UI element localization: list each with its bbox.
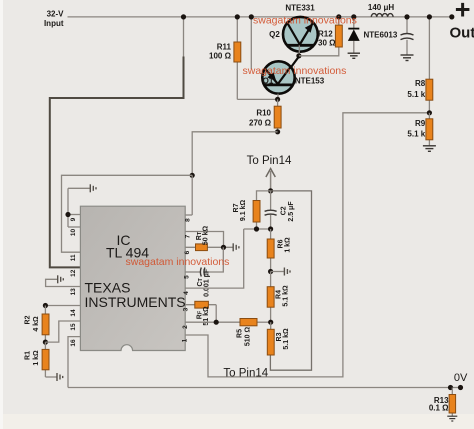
node rail junction at R12 [336, 14, 341, 19]
wire 32V branch dark segment down-left to IC pin 12 [50, 57, 184, 268]
ground at R9 [423, 146, 436, 152]
resistor R7 [233, 200, 260, 222]
label Q2 [269, 30, 280, 39]
capacitor output filter [401, 34, 414, 40]
wire pin 13 to ground [46, 279, 81, 286]
ground at diode [348, 53, 360, 58]
pin number 6 [184, 250, 191, 254]
svg-text:1 kΩ: 1 kΩ [33, 350, 40, 366]
svg-text:8: 8 [185, 218, 192, 222]
svg-text:R7: R7 [233, 203, 240, 212]
wire pins 9,10 tie with ground branch [68, 188, 90, 227]
node pin2/RF junction [214, 320, 219, 325]
wire pin 3 through RF to pin 2 node [185, 305, 216, 323]
node rail junction at output capacitor [404, 14, 409, 19]
svg-text:R9: R9 [415, 119, 426, 128]
svg-text:Q2: Q2 [269, 30, 280, 39]
resistor R4 leads [270, 272, 272, 323]
transistor Q2 NTE331 [283, 17, 318, 52]
svg-text:R3: R3 [276, 332, 283, 341]
node RT/CT ground junction [221, 245, 226, 250]
svg-text:10: 10 [70, 229, 77, 237]
svg-text:0V: 0V [454, 372, 468, 384]
watermark swagatam innovations (middle) [243, 65, 347, 77]
svg-text:R4: R4 [276, 290, 283, 299]
svg-text:50 kΩ: 50 kΩ [202, 226, 209, 246]
svg-text:R11: R11 [217, 43, 232, 52]
diode NTE6013 [348, 29, 398, 41]
pin number 7 [185, 234, 192, 238]
wire pin 1 feedback to R8/R9 junction [185, 113, 429, 377]
svg-text:16: 16 [70, 339, 77, 347]
svg-text:0.001 μF: 0.001 μF [204, 268, 211, 297]
svg-text:4 kΩ: 4 kΩ [33, 316, 40, 332]
svg-text:1 kΩ: 1 kΩ [285, 237, 292, 253]
node pin9 junction [65, 212, 70, 217]
wire pin 16 to 0V rail [68, 337, 80, 388]
node rail junction at diode [351, 14, 356, 19]
node R2/R1 junction [43, 340, 48, 345]
svg-text:140 μH: 140 μH [368, 3, 394, 12]
wire Q1 emitter to rail [250, 17, 252, 69]
pin number 16 [70, 339, 77, 347]
svg-text:5.1 k: 5.1 k [407, 90, 425, 99]
resistor R2 [25, 314, 50, 335]
node input label 32-V Input [44, 10, 64, 29]
resistor R11 leads [236, 17, 238, 100]
svg-text:270 Ω: 270 Ω [249, 119, 272, 128]
svg-text:Input: Input [44, 19, 64, 28]
svg-text:15: 15 [70, 323, 77, 331]
svg-text:32-V: 32-V [47, 10, 65, 19]
diode NTE6013 leads [353, 17, 355, 53]
svg-text:12: 12 [70, 269, 77, 277]
resistor R13 leads [451, 388, 453, 417]
resistor R1 [25, 349, 50, 369]
svg-text:5.1 k: 5.1 k [407, 130, 425, 139]
pin number 4 [183, 291, 190, 295]
svg-text:R1: R1 [25, 351, 32, 360]
svg-text:5.1 kΩ: 5.1 kΩ [283, 285, 290, 307]
resistor RF [195, 301, 210, 325]
resistor R12 [318, 25, 342, 47]
node rail junction at R8 [427, 14, 432, 19]
pin number 12 [70, 269, 77, 277]
wire R7/C2 bottom tie [244, 228, 271, 230]
resistor R2 leads [44, 306, 46, 343]
capacitor output filter leads [406, 17, 408, 55]
node output terminal [449, 14, 454, 19]
svg-text:swagatam innovations: swagatam innovations [243, 65, 347, 77]
node 0V terminal [458, 385, 463, 390]
transistor Q1 NTE153 [262, 57, 299, 94]
watermark swagatam innovations (top) [253, 15, 357, 27]
label To Pin14 (bottom) [223, 368, 268, 380]
pin number 3 [183, 307, 190, 311]
svg-text:R12: R12 [318, 30, 333, 39]
ground (sideways) at pins 5,6,7 [233, 243, 239, 251]
resistor R5 [237, 319, 258, 347]
IC U1 TL494 body [80, 206, 185, 350]
node R10 bottom [275, 129, 280, 134]
node R4/R3/R5 junction [268, 320, 273, 325]
svg-text:To Pin14: To Pin14 [223, 368, 268, 380]
wire R11 to Q1 base [237, 98, 277, 100]
resistor R8 [407, 79, 432, 100]
node rail junction at R11 [235, 14, 240, 19]
pin number 15 [70, 323, 77, 331]
pin number 10 [70, 229, 77, 237]
svg-text:+: + [455, 0, 471, 25]
svg-text:R8: R8 [415, 79, 426, 88]
svg-text:Outp: Outp [450, 25, 474, 42]
label To Pin14 (top) [247, 155, 292, 167]
node rail junction at Q1 emitter [249, 14, 254, 19]
wire 0V bottom rail [68, 387, 461, 389]
ground (sideways) at R6 bottom [284, 268, 290, 276]
wire junction left to pin 11 riser [62, 175, 193, 252]
wire pin 4 to R6 top node [185, 229, 244, 288]
pin number 1 [182, 338, 189, 342]
svg-text:2: 2 [182, 325, 189, 329]
ground (sideways) at R1 [57, 373, 63, 381]
svg-text:NTE153: NTE153 [295, 76, 325, 85]
pin number 5 [184, 275, 191, 279]
wire pin 7 to ground node [185, 232, 223, 248]
resistor R11 [209, 42, 241, 62]
wire divider top loop to R3 bottom [270, 191, 311, 370]
ground (sideways) at pin 13 [58, 275, 64, 283]
wire pin 14 to R2 [45, 305, 80, 307]
svg-text:Q1: Q1 [263, 77, 274, 86]
node R6 bottom ground tap [268, 269, 273, 274]
svg-text:4: 4 [183, 291, 190, 295]
label + Out [450, 0, 474, 42]
svg-text:0.1 Ω: 0.1 Ω [429, 403, 449, 412]
wire 32V top rail [68, 16, 452, 18]
svg-text:C2: C2 [281, 206, 288, 215]
svg-text:7: 7 [185, 234, 192, 238]
svg-text:R5: R5 [237, 329, 244, 338]
label 0V [454, 372, 468, 384]
wire junction down to pin 8 [185, 175, 192, 215]
wire R6 bottom to ground [271, 271, 284, 273]
wire Q2 base stem [298, 45, 300, 56]
node C2 bottom / R6 top [268, 226, 273, 231]
wire pin 5 through CT [185, 247, 223, 272]
resistor R13 [429, 395, 456, 414]
resistor R6 [267, 237, 291, 258]
svg-text:13: 13 [70, 288, 77, 296]
wire pin 6 through RT to ground [185, 246, 233, 248]
pin number 11 [70, 254, 77, 261]
wire Q1 base stem [277, 94, 279, 100]
wire R10 bottom to pins 8,11 net [192, 132, 277, 176]
node divider top [268, 188, 273, 193]
node pin8/pin11 junction [190, 173, 195, 178]
capacitor C2 [265, 201, 295, 222]
svg-text:5.1 kΩ: 5.1 kΩ [283, 328, 290, 350]
resistor R10 leads [277, 99, 279, 132]
label Q1 [263, 77, 274, 86]
node Q1 base junction [275, 97, 280, 102]
svg-text:11: 11 [70, 254, 77, 261]
ground (sideways) near pins 9,10 [90, 184, 96, 192]
resistor R3 leads [270, 322, 272, 330]
svg-text:3: 3 [183, 307, 190, 311]
capacitor CT [197, 268, 211, 297]
watermark swagatam innovations (IC) [126, 256, 230, 268]
svg-text:100 Ω: 100 Ω [209, 52, 232, 61]
resistor R8 leads [428, 17, 430, 113]
wire pin 2 to R5 [185, 321, 271, 323]
ground at R13 [447, 416, 457, 421]
pin number 8 [185, 218, 192, 222]
resistor R1 leads [45, 342, 56, 377]
svg-text:R6: R6 [278, 239, 285, 248]
label NTE153 [295, 76, 325, 85]
svg-text:2.5 μF: 2.5 μF [288, 201, 295, 222]
resistor R4 [267, 285, 289, 307]
node rail junction at input branch [181, 14, 186, 19]
resistor R3 [267, 328, 290, 355]
inductor 140uH [371, 14, 393, 17]
node R8/R9 junction [427, 110, 432, 115]
svg-text:swagatam innovations: swagatam innovations [126, 256, 230, 268]
svg-text:NTE331: NTE331 [285, 4, 315, 13]
capacitor C2 leads [270, 191, 272, 229]
wire 32V branch to pin 12 (light upper segment) [183, 17, 185, 57]
svg-text:6: 6 [184, 250, 191, 254]
svg-text:14: 14 [70, 309, 77, 317]
label NTE331 [285, 4, 315, 13]
resistor R10 [249, 106, 281, 128]
svg-text:1: 1 [182, 338, 189, 342]
pin number 13 [70, 288, 77, 296]
svg-text:INSTRUMENTS: INSTRUMENTS [85, 294, 186, 310]
svg-text:30 Ω: 30 Ω [318, 39, 336, 48]
ground at output capacitor [401, 55, 414, 61]
svg-text:510 Ω: 510 Ω [245, 327, 252, 347]
pin number 2 [182, 325, 189, 329]
svg-text:NTE6013: NTE6013 [364, 30, 398, 39]
svg-text:R2: R2 [25, 315, 32, 324]
svg-text:9.1 kΩ: 9.1 kΩ [240, 200, 247, 222]
resistor R7 leads [257, 191, 271, 229]
wire Vref arrow to divider top [266, 169, 275, 191]
node R13 top [448, 385, 453, 390]
resistor R6 leads [270, 229, 272, 272]
pin number 9 [70, 217, 77, 221]
resistor RT [196, 226, 210, 251]
svg-text:To Pin14: To Pin14 [247, 155, 292, 167]
svg-text:R10: R10 [256, 109, 271, 118]
svg-text:swagatam innovations: swagatam innovations [253, 15, 357, 27]
node R2 top [43, 303, 48, 308]
wire Q2 base to R12 [299, 17, 339, 56]
svg-text:9: 9 [70, 217, 77, 221]
svg-text:5: 5 [184, 275, 191, 279]
wire junction to pin 15 [45, 321, 80, 342]
pin number 14 [70, 309, 77, 317]
label 140 uH [368, 3, 394, 12]
resistor R9 [407, 119, 432, 140]
node R7 bottom [254, 226, 259, 231]
label IC TL 494 [106, 232, 149, 261]
label TEXAS INSTRUMENTS [85, 279, 186, 310]
node Q2 base / Q1 collector junction [296, 53, 301, 58]
svg-text:TEXAS: TEXAS [85, 279, 131, 295]
resistor R9 leads [428, 113, 430, 146]
